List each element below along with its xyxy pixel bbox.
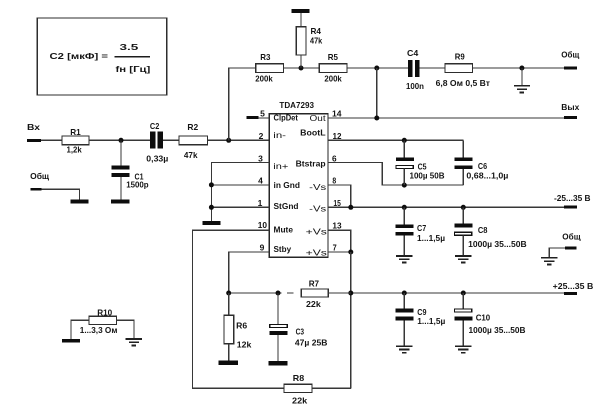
svg-text:-Vs: -Vs	[309, 204, 326, 214]
ground IEC under Общ	[541, 258, 557, 265]
pin 8 -Vs	[309, 175, 336, 192]
svg-text:Общ: Общ	[30, 171, 50, 181]
wire C4 to R9	[420, 67, 445, 69]
pin 5 ClpDet	[247, 108, 299, 122]
node junction pin8 drop	[348, 205, 353, 210]
node junction C7 top	[402, 205, 407, 210]
node junction C5 bottom	[402, 183, 407, 188]
capacitor C10	[454, 293, 525, 345]
pin 14 Out	[310, 108, 342, 122]
node junction out	[374, 116, 379, 121]
node junction C8 top	[461, 205, 466, 210]
svg-text:C10: C10	[476, 313, 491, 323]
svg-text:R9: R9	[455, 51, 465, 61]
node junction R3 tap on in-	[226, 138, 231, 143]
ground bar under C3	[269, 361, 288, 365]
pin 12 BootL	[300, 127, 342, 140]
svg-text:in Gnd: in Gnd	[274, 180, 301, 190]
wire BootL row	[328, 139, 463, 141]
ground bar under in+ chain	[202, 221, 220, 225]
node junction +Vs vertical	[348, 291, 353, 296]
node junction C10 top	[461, 291, 466, 296]
svg-text:ClpDet: ClpDet	[274, 113, 299, 123]
wire pin1	[211, 206, 269, 208]
svg-text:13: 13	[332, 220, 341, 230]
svg-text:in+: in+	[273, 161, 288, 171]
svg-text:9: 9	[260, 242, 265, 252]
node +25...35 В terminal	[553, 281, 594, 295]
svg-text:15: 15	[333, 198, 341, 208]
node junction C9 top	[402, 291, 407, 296]
capacitor C7	[396, 207, 446, 255]
ground IEC under C7	[396, 256, 412, 263]
svg-text:5: 5	[260, 108, 265, 118]
svg-text:14: 14	[332, 108, 342, 118]
svg-text:R6: R6	[236, 320, 247, 330]
wire Stby down	[229, 252, 270, 293]
wire R2 to pin2	[208, 139, 270, 141]
capacitor C5	[396, 140, 445, 185]
svg-text:C3: C3	[296, 326, 305, 336]
pin 15 -Vs	[309, 198, 341, 214]
svg-text:-25...35 В: -25...35 В	[554, 193, 591, 203]
wire R1 to C2	[89, 139, 150, 141]
resistor R3	[255, 52, 283, 84]
node junction pin4	[209, 182, 214, 187]
capacitor C6	[455, 140, 509, 185]
svg-text:Stby: Stby	[274, 244, 292, 254]
svg-text:0,33µ: 0,33µ	[146, 154, 168, 164]
svg-text:47k: 47k	[310, 35, 322, 45]
pin 7 +Vs	[306, 242, 337, 257]
wire -Vs rail	[328, 206, 564, 208]
svg-text:R3: R3	[260, 52, 270, 62]
wire R9 to Общ terminal	[473, 67, 565, 69]
ground IEC under C9	[396, 346, 412, 353]
wire dash to R7	[287, 292, 293, 294]
node junction pin7	[348, 250, 353, 255]
wire C2 to R2	[163, 139, 179, 141]
svg-text:1...3,3 Ом: 1...3,3 Ом	[80, 325, 118, 335]
capacitor C1	[111, 140, 148, 199]
wire pin8 to -Vs rail	[328, 185, 351, 207]
pin 2 in-	[259, 130, 287, 141]
node junction C1 tap	[119, 138, 124, 143]
svg-text:47k: 47k	[184, 150, 198, 160]
ground left Общ	[71, 199, 89, 203]
svg-text:1...1,5µ: 1...1,5µ	[417, 316, 445, 326]
resistor R4	[296, 13, 322, 68]
node Вых terminal	[561, 102, 579, 119]
svg-text:1000µ 35...50В: 1000µ 35...50В	[469, 325, 526, 335]
svg-text:-Vs: -Vs	[309, 182, 326, 192]
wire R7 to +Vs	[328, 292, 351, 294]
svg-text:4: 4	[258, 175, 263, 185]
wire R5 to C4	[347, 67, 408, 69]
ground bar under R6	[219, 361, 239, 365]
svg-text:10: 10	[258, 220, 268, 230]
node junction C5 top	[402, 138, 407, 143]
formula box C2	[37, 18, 166, 95]
svg-text:+Vs: +Vs	[306, 226, 327, 236]
node Общ middle right terminal	[562, 232, 581, 250]
pin 3 in+	[258, 153, 288, 171]
svg-text:C8: C8	[478, 225, 488, 235]
svg-text:3.5: 3.5	[120, 42, 139, 52]
wire Stby node row	[229, 292, 282, 294]
op-amp IC U1 TDA7293 box	[269, 100, 328, 257]
svg-text:Общ: Общ	[561, 49, 580, 59]
resistor R8	[284, 373, 312, 405]
ground IEC under C8	[455, 256, 471, 263]
wire junction up to R3	[229, 68, 256, 140]
svg-text:R7: R7	[309, 279, 320, 289]
resistor R6	[224, 293, 252, 361]
svg-text:0,68...1,0µ: 0,68...1,0µ	[466, 171, 508, 181]
power bar top	[292, 9, 310, 13]
resistor R5	[319, 52, 347, 84]
wire input to R1	[41, 139, 62, 141]
wire R3 to R5	[284, 67, 320, 69]
wire Общ to ground	[549, 248, 565, 257]
svg-text:TDA7293: TDA7293	[279, 100, 314, 110]
wire pin13 to pin7	[328, 230, 351, 252]
wire pin7 stub	[328, 251, 351, 253]
ground IEC under R9	[514, 86, 530, 93]
resistor R9	[436, 51, 490, 88]
svg-text:C2 [мкФ] =: C2 [мкФ] =	[50, 51, 109, 61]
svg-text:R1: R1	[70, 127, 81, 137]
svg-text:200k: 200k	[324, 74, 342, 84]
capacitor C9	[396, 293, 446, 345]
svg-text:1000µ 35...50В: 1000µ 35...50В	[468, 239, 527, 249]
node junction ground tap	[519, 66, 524, 71]
svg-text:Btstrap: Btstrap	[296, 159, 326, 169]
svg-text:Вх: Вх	[27, 122, 40, 132]
wire down to ground	[521, 68, 523, 85]
svg-text:1...1,5µ: 1...1,5µ	[417, 233, 445, 243]
svg-text:C2: C2	[150, 121, 160, 131]
svg-text:R10: R10	[97, 308, 112, 318]
capacitor C4	[406, 48, 424, 91]
pin 6 Btstrap	[296, 153, 337, 168]
wire Общ to ground	[42, 189, 80, 199]
node junction pin1	[209, 205, 214, 210]
svg-text:1: 1	[258, 198, 263, 208]
svg-text:1,2k: 1,2k	[67, 144, 82, 154]
svg-text:200k: 200k	[255, 74, 273, 84]
node junction Stby-R6	[226, 291, 231, 296]
node junction C3 top	[276, 291, 281, 296]
resistor R10	[80, 308, 118, 336]
svg-text:22k: 22k	[306, 299, 321, 309]
ground under C1	[111, 199, 130, 203]
wire in+ chain to ground	[211, 163, 269, 221]
svg-text:in-: in-	[273, 130, 286, 140]
svg-text:100n: 100n	[406, 81, 424, 91]
wire pin4	[211, 184, 269, 186]
resistor R2	[179, 122, 208, 160]
wire Btstrap loop	[328, 163, 463, 186]
svg-text:C6: C6	[478, 161, 487, 171]
svg-text:Out: Out	[310, 113, 327, 123]
wire Mute loop	[193, 230, 284, 388]
svg-text:R5: R5	[328, 52, 338, 62]
svg-text:6: 6	[332, 153, 337, 163]
svg-text:Вых: Вых	[561, 102, 579, 112]
svg-text:47µ 25В: 47µ 25В	[295, 338, 328, 348]
wire Out row to Вых	[328, 117, 564, 119]
svg-text:+25...35 В: +25...35 В	[553, 281, 594, 291]
wire R10 right to ground	[117, 320, 134, 338]
wire +Vs vertical	[350, 252, 352, 388]
ground bar R10 left	[62, 339, 80, 343]
svg-text:fн [Гц]: fн [Гц]	[116, 64, 151, 74]
node junction R4 bottom	[299, 66, 304, 71]
svg-text:+Vs: +Vs	[306, 247, 327, 257]
svg-text:3: 3	[258, 153, 263, 163]
svg-text:22k: 22k	[292, 396, 307, 406]
svg-text:8: 8	[332, 175, 336, 185]
svg-text:Mute: Mute	[274, 225, 294, 235]
svg-text:100µ 50В: 100µ 50В	[410, 170, 445, 180]
svg-text:C7: C7	[417, 223, 426, 233]
svg-text:7: 7	[333, 242, 337, 252]
svg-text:12: 12	[333, 131, 342, 141]
svg-text:C4: C4	[407, 48, 419, 58]
capacitor C2	[146, 121, 168, 163]
wire junction down to out row	[376, 68, 378, 118]
node -25...35 В terminal	[554, 193, 591, 209]
svg-text:R2: R2	[187, 122, 198, 132]
capacitor C8	[454, 207, 526, 255]
svg-text:12k: 12k	[237, 339, 252, 349]
node junction out tap	[374, 66, 379, 71]
svg-text:2: 2	[259, 131, 264, 141]
pin 9 Stby	[260, 242, 292, 254]
wire R8 to +Vs vertical	[312, 387, 351, 389]
ground IEC under C10	[455, 346, 471, 353]
node Вх input terminal	[27, 122, 41, 142]
pin 13 +Vs	[306, 220, 342, 236]
svg-text:StGnd: StGnd	[274, 201, 299, 211]
node Общ top right terminal	[561, 49, 580, 69]
capacitor C3	[270, 293, 328, 361]
pin 4 in Gnd	[258, 175, 300, 189]
resistor R7	[301, 279, 328, 309]
wire R10 left to ground	[71, 320, 89, 339]
svg-text:BootL: BootL	[300, 127, 325, 137]
ground IEC R10 right	[126, 339, 142, 346]
pin 10 Mute	[258, 220, 294, 235]
resistor R1	[62, 127, 89, 155]
wire +Vs rail	[351, 292, 564, 294]
svg-text:R8: R8	[293, 373, 305, 383]
svg-text:Общ: Общ	[562, 232, 581, 242]
svg-text:6,8 Ом 0,5 Вт: 6,8 Ом 0,5 Вт	[436, 78, 490, 88]
node Общ left terminal	[30, 171, 50, 191]
pin 1 StGnd	[258, 198, 299, 211]
svg-text:1500p: 1500p	[126, 180, 148, 190]
